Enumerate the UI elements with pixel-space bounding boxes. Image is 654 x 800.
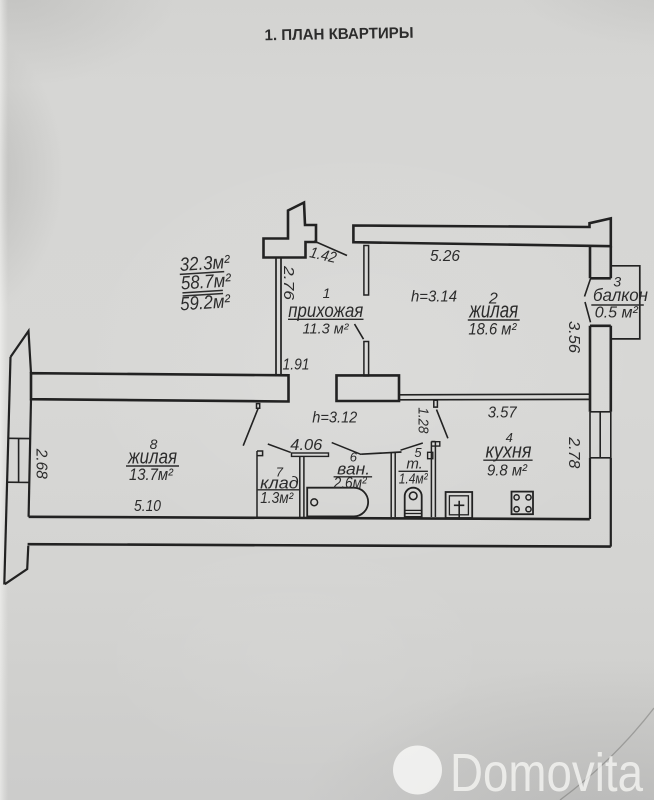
- wall D kitchen-left: [431, 442, 435, 518]
- node room1 label: [288, 285, 363, 338]
- watermark logo: [393, 746, 442, 795]
- chimney shaft: [264, 203, 317, 258]
- wall room2 bottom double: [399, 394, 590, 400]
- wall van top: [361, 452, 401, 454]
- balcony: [612, 266, 640, 339]
- svg-text:0.5 м²: 0.5 м²: [595, 305, 639, 322]
- sink outer: [446, 492, 473, 518]
- wire: [314, 241, 347, 256]
- door room8 leaf: [243, 408, 258, 446]
- wall bottom: [28, 517, 611, 547]
- svg-text:Domovita: Domovita: [450, 743, 644, 800]
- svg-text:кухня: кухня: [486, 441, 532, 463]
- svg-text:3.56: 3.56: [565, 321, 582, 353]
- svg-text:5.26: 5.26: [430, 248, 460, 265]
- svg-text:2.78: 2.78: [565, 436, 582, 468]
- node klad label: [260, 464, 299, 506]
- stove: [512, 492, 534, 515]
- svg-text:2.76: 2.76: [280, 265, 297, 301]
- node bath label: [333, 450, 370, 493]
- window left: [7, 438, 30, 482]
- door balcony ticks: [585, 279, 591, 323]
- toilet: [405, 488, 422, 517]
- wall left inner: [29, 399, 31, 517]
- door room8 hinge: [257, 404, 260, 409]
- wall right lower: [590, 458, 611, 547]
- svg-text:2.6м²: 2.6м²: [333, 475, 367, 492]
- svg-text:h=3.14: h=3.14: [411, 289, 457, 306]
- door van leaf: [332, 443, 361, 455]
- wall right upper: [590, 246, 611, 278]
- door klad leaf: [268, 444, 291, 452]
- door wc leaf: [401, 443, 423, 450]
- node kitchen label: [486, 430, 532, 480]
- svg-text:1.4м²: 1.4м²: [399, 471, 429, 488]
- node area-totals: [177, 252, 233, 315]
- svg-text:1.3м²: 1.3м²: [260, 490, 294, 507]
- svg-text:18.6 м²: 18.6 м²: [468, 320, 517, 339]
- wall hallway-left double: [276, 258, 281, 375]
- svg-text:2.68: 2.68: [33, 448, 50, 479]
- paper curl: [560, 708, 654, 800]
- svg-text:13.7м²: 13.7м²: [129, 466, 173, 484]
- wall left chamfer top: [11, 331, 32, 373]
- svg-text:1: 1: [323, 285, 331, 301]
- svg-text:1.91: 1.91: [283, 357, 310, 374]
- node balcony label: [593, 273, 648, 321]
- node room8 label: [127, 436, 177, 484]
- svg-text:11.3 м²: 11.3 м²: [303, 322, 350, 338]
- wall left bottom stub: [5, 546, 29, 584]
- svg-text:h=3.12: h=3.12: [312, 410, 357, 427]
- toilet lines: [405, 510, 422, 513]
- wall D cap: [431, 442, 439, 446]
- wall right mid: [590, 326, 611, 412]
- sink inner: [449, 496, 468, 515]
- wall C van-wc: [391, 452, 395, 517]
- window kitchen: [590, 412, 611, 458]
- wall jamb klad-van: [292, 453, 329, 456]
- svg-text:1. ПЛАН КВАРТИРЫ: 1. ПЛАН КВАРТИРЫ: [264, 25, 413, 45]
- svg-text:9.8 м²: 9.8 м²: [487, 462, 528, 479]
- bathtub: [307, 488, 368, 517]
- bathtub drain: [311, 499, 318, 506]
- svg-text:1.42: 1.42: [308, 244, 338, 267]
- svg-text:3.57: 3.57: [488, 405, 518, 422]
- stove burners: [514, 495, 531, 512]
- door kitchen hinge: [434, 400, 438, 407]
- toilet circle: [409, 492, 417, 500]
- wall B van left: [300, 456, 304, 517]
- sink cross: [454, 501, 464, 520]
- svg-text:4.06: 4.06: [290, 437, 322, 454]
- wall room2 top bar: [353, 218, 610, 246]
- wall room2-left upper: [364, 246, 369, 296]
- wall bar2: [337, 375, 400, 401]
- node wc label: [399, 445, 429, 488]
- wall klad left: [257, 451, 263, 517]
- wall bar1: [31, 373, 289, 401]
- svg-text:5.10: 5.10: [134, 498, 161, 515]
- wall D jamb: [428, 452, 433, 458]
- svg-text:1.28: 1.28: [415, 407, 432, 434]
- svg-text:балкон: балкон: [593, 285, 648, 305]
- door room2 leaf: [355, 324, 364, 339]
- node room2 label: [468, 291, 518, 339]
- wall room2-left lower: [364, 342, 369, 376]
- wall left outer: [4, 357, 10, 585]
- door kitchen leaf: [437, 410, 448, 439]
